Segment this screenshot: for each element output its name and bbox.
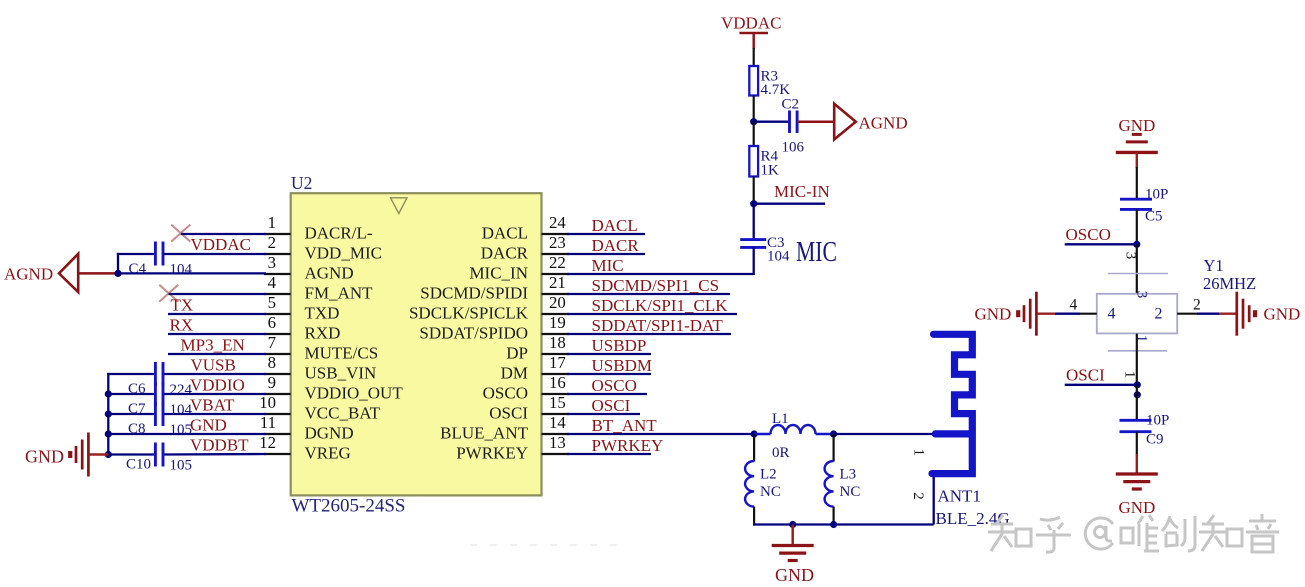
pin 13 name PWRKEY bbox=[456, 444, 528, 463]
node bus/VBAT bbox=[105, 410, 112, 417]
value 10P (C9) bbox=[1146, 413, 1169, 429]
wire C3 down to pin22 net bbox=[753, 248, 755, 276]
pin 18 number bbox=[549, 333, 566, 352]
node OSCI b bbox=[1134, 391, 1141, 398]
net label OSCO bbox=[592, 376, 637, 395]
wire junction to R4 bbox=[753, 122, 755, 147]
wire junction to C3 bbox=[753, 204, 755, 240]
inductor L2 bbox=[745, 461, 754, 507]
wire C5 to OSCO junction bbox=[1136, 209, 1138, 245]
capacitor C2 bbox=[790, 110, 798, 133]
value 104 (C3) bbox=[767, 249, 790, 265]
pin 15 OSCI stub bbox=[542, 413, 570, 415]
svg-text:23: 23 bbox=[549, 233, 566, 252]
wire GND tap down bbox=[791, 525, 794, 546]
part value WT2605-24SS bbox=[292, 496, 406, 517]
svg-text:VCC_BAT: VCC_BAT bbox=[305, 404, 381, 423]
pin 11 name DGND bbox=[305, 424, 354, 443]
pin 20 number bbox=[549, 293, 566, 312]
value 0R bbox=[772, 445, 790, 461]
pin 9 number bbox=[268, 373, 276, 392]
pin 2 number bbox=[268, 233, 276, 252]
pin 19 name SDDAT/SPIDO bbox=[419, 324, 528, 343]
designator U2 bbox=[291, 173, 312, 193]
node OSCI a bbox=[1134, 381, 1141, 388]
label C8 bbox=[128, 421, 146, 437]
label L2 bbox=[760, 467, 777, 483]
wire R4 to MIC-IN junction bbox=[753, 177, 755, 205]
node L1 right / L3 bbox=[830, 430, 837, 437]
net label SDCMD/SPI1_CS bbox=[592, 276, 720, 295]
svg-text:PWRKEY: PWRKEY bbox=[456, 444, 528, 463]
net label OSCO bbox=[1066, 225, 1111, 244]
label C6 bbox=[128, 381, 146, 397]
svg-text:SDDAT/SPI1-DAT: SDDAT/SPI1-DAT bbox=[592, 316, 724, 335]
net label DACL bbox=[592, 216, 638, 235]
wire net DACL bbox=[567, 233, 645, 235]
capacitor C3 bbox=[740, 240, 766, 248]
svg-text:7: 7 bbox=[268, 333, 276, 352]
ground GND (left sideways) bbox=[25, 433, 88, 477]
svg-text:MIC: MIC bbox=[796, 236, 837, 268]
pin 4 number bbox=[268, 273, 277, 292]
svg-text:GND: GND bbox=[1264, 305, 1301, 324]
pin 10 name VCC_BAT bbox=[305, 404, 381, 423]
pin 1 label (antenna) bbox=[911, 449, 927, 457]
node bus/VDDIO bbox=[105, 390, 112, 397]
capacitor C6 bbox=[155, 362, 163, 386]
ground GND (crystal right, sideways) bbox=[1237, 292, 1301, 336]
pin 14 name BLUE_ANT bbox=[440, 424, 528, 443]
svg-text:Y1: Y1 bbox=[1204, 256, 1224, 275]
capacitor C5 bbox=[1120, 199, 1152, 209]
svg-text:10: 10 bbox=[259, 393, 276, 412]
node L3 bottom bbox=[830, 521, 837, 528]
pin 3 name AGND bbox=[305, 264, 354, 283]
svg-text:OSCO: OSCO bbox=[1066, 225, 1111, 244]
pin 23 DACR stub bbox=[542, 253, 570, 255]
pin 2 VDD_MIC stub bbox=[264, 253, 291, 255]
svg-text:11: 11 bbox=[260, 413, 276, 432]
wire antenna pin2 bbox=[933, 474, 935, 525]
wire L3 bottom bbox=[832, 507, 834, 526]
pin 7 number bbox=[268, 333, 276, 352]
watermark 知乎 @唯创知音 bbox=[988, 514, 1279, 552]
svg-text:MP3_EN: MP3_EN bbox=[181, 336, 245, 355]
svg-text:WT2605-24SS: WT2605-24SS bbox=[292, 496, 406, 517]
svg-text:DM: DM bbox=[501, 364, 528, 383]
wire L2 bottom bbox=[753, 507, 755, 526]
label R4 bbox=[761, 149, 779, 165]
wire pin1 bbox=[181, 233, 266, 235]
svg-text:10P: 10P bbox=[1145, 187, 1168, 203]
wire C9 to GND bbox=[1136, 432, 1138, 474]
capacitor C9 bbox=[1120, 420, 1152, 431]
pin 6 number bbox=[268, 313, 276, 332]
pin 24 name DACL bbox=[482, 224, 528, 243]
svg-text:U2: U2 bbox=[291, 173, 312, 193]
net label PWRKEY bbox=[592, 436, 664, 455]
svg-text:3: 3 bbox=[268, 253, 276, 272]
wire RX bbox=[168, 333, 266, 335]
pin 6 RXD stub bbox=[264, 333, 291, 335]
svg-text:BT_ANT: BT_ANT bbox=[592, 416, 658, 435]
svg-text:ANT1: ANT1 bbox=[938, 487, 981, 506]
power port VDDAC bbox=[721, 13, 781, 49]
svg-text:C9: C9 bbox=[1146, 432, 1164, 448]
svg-text:1: 1 bbox=[268, 213, 276, 232]
value 224 (C6) bbox=[170, 382, 193, 398]
svg-text:GND: GND bbox=[775, 565, 814, 585]
capacitor C7 bbox=[155, 382, 163, 406]
svg-text:L1: L1 bbox=[772, 411, 789, 427]
svg-text:SDCMD/SPI1_CS: SDCMD/SPI1_CS bbox=[592, 276, 720, 295]
svg-text:TXD: TXD bbox=[305, 304, 340, 323]
value 105 (C10) bbox=[170, 458, 193, 474]
wire GND to C5 bbox=[1136, 152, 1138, 200]
svg-text:OSCI: OSCI bbox=[592, 396, 631, 415]
wire OSCI bbox=[1065, 384, 1137, 386]
pin 17 name DM bbox=[501, 364, 528, 383]
label C9 bbox=[1146, 432, 1164, 448]
wire net SDDAT/SPI1-DAT bbox=[567, 333, 731, 335]
pin 4 FM_ANT stub bbox=[264, 293, 291, 295]
pin 1 name (crystal) bbox=[1134, 335, 1150, 343]
svg-text:VDDBT: VDDBT bbox=[190, 436, 249, 455]
svg-text:OSCI: OSCI bbox=[489, 404, 528, 423]
wire GND row pin11 bbox=[108, 433, 266, 435]
svg-text:DP: DP bbox=[506, 344, 528, 363]
label C3 bbox=[767, 235, 785, 251]
value 105 (C8) bbox=[170, 422, 193, 438]
net label SDCLK/SPI1_CLK bbox=[592, 296, 729, 315]
svg-text:RXD: RXD bbox=[305, 324, 341, 343]
net label VUSB bbox=[191, 356, 236, 375]
resistor R4 bbox=[749, 146, 758, 177]
pin 15 name OSCI bbox=[489, 404, 528, 423]
wire MIC-IN bbox=[754, 203, 825, 205]
pin 13 PWRKEY stub bbox=[542, 453, 570, 455]
pin 18 DP stub bbox=[542, 353, 570, 355]
wire crystal to OSCI bbox=[1136, 334, 1138, 386]
pin 1 number bbox=[268, 213, 276, 232]
svg-text:SDCLK/SPI1_CLK: SDCLK/SPI1_CLK bbox=[592, 296, 729, 315]
svg-text:17: 17 bbox=[549, 353, 566, 372]
inductor L1 bbox=[754, 425, 834, 434]
svg-text:1: 1 bbox=[911, 449, 927, 457]
svg-text:DACR/L-: DACR/L- bbox=[305, 224, 373, 243]
pin 13 number bbox=[549, 433, 566, 452]
node MIC-IN bbox=[750, 200, 757, 207]
net label VDDAC (pin2) bbox=[191, 235, 251, 254]
svg-text:SDDAT/SPIDO: SDDAT/SPIDO bbox=[419, 324, 528, 343]
svg-text:4: 4 bbox=[1070, 297, 1078, 314]
pin 2 name VDD_MIC bbox=[305, 244, 382, 263]
pin 24 DACL stub bbox=[542, 233, 570, 235]
wire bus vertical bbox=[107, 373, 109, 455]
net label BT_ANT bbox=[592, 416, 658, 435]
inductor L3 bbox=[825, 461, 834, 507]
pin 12 name VREG bbox=[305, 444, 351, 463]
value 106 bbox=[782, 140, 805, 156]
svg-text:22: 22 bbox=[549, 253, 566, 272]
wire net OSCO bbox=[567, 393, 647, 395]
svg-text:2: 2 bbox=[1155, 306, 1163, 323]
pin 3 number bbox=[268, 253, 276, 272]
wire MP3_EN bbox=[168, 353, 266, 355]
pin 8 USB_VIN stub bbox=[264, 373, 291, 375]
pin 21 number bbox=[549, 273, 566, 292]
net label SDDAT/SPI1-DAT bbox=[592, 316, 724, 335]
svg-text:AGND: AGND bbox=[4, 265, 53, 284]
svg-text:VUSB: VUSB bbox=[191, 356, 236, 375]
wire L3 top stub bbox=[832, 434, 834, 462]
wire net OSCI bbox=[567, 413, 640, 415]
wire VDDIO row bbox=[108, 393, 266, 395]
pin 23 name DACR bbox=[481, 244, 529, 263]
pin 19 number bbox=[549, 313, 566, 332]
wire net DACR bbox=[567, 253, 645, 255]
node bus/GND bbox=[105, 430, 112, 437]
value 104 (C4) bbox=[170, 262, 193, 278]
pin 2 name (crystal) bbox=[1155, 306, 1163, 323]
capacitor C4 bbox=[155, 242, 163, 266]
pin 5 number bbox=[268, 293, 276, 312]
svg-text:VREG: VREG bbox=[305, 444, 351, 463]
svg-text:VDDIO: VDDIO bbox=[190, 376, 245, 395]
pin 17 number bbox=[549, 353, 566, 372]
pin 14 BLUE_ANT stub bbox=[542, 433, 570, 435]
svg-text:C10: C10 bbox=[126, 457, 151, 473]
no-connect X pin 4 bbox=[159, 285, 178, 302]
net label MIC-IN bbox=[774, 182, 830, 201]
svg-text:PWRKEY: PWRKEY bbox=[592, 436, 664, 455]
wire net PWRKEY bbox=[567, 453, 651, 455]
wire AGND to junction bbox=[78, 272, 118, 275]
antenna ANT1 meander bbox=[932, 334, 972, 473]
pin 21 name SDCMD/SPIDI bbox=[420, 284, 528, 303]
value 26MHZ bbox=[1203, 274, 1256, 293]
node GND tap bbox=[789, 521, 796, 528]
pin 12 number bbox=[259, 433, 276, 452]
pin 5 TXD stub bbox=[264, 313, 291, 315]
svg-text:2: 2 bbox=[268, 233, 276, 252]
svg-text:1: 1 bbox=[1122, 371, 1138, 379]
svg-text:SDCMD/SPIDI: SDCMD/SPIDI bbox=[420, 284, 528, 303]
svg-text:DACR: DACR bbox=[481, 244, 529, 263]
wire net USBDM bbox=[567, 373, 651, 375]
svg-text:104: 104 bbox=[767, 249, 790, 265]
label C7 bbox=[128, 401, 146, 417]
wire L2 top stub bbox=[753, 434, 755, 462]
ground GND (bottom right) bbox=[1116, 474, 1158, 517]
label C5 bbox=[1145, 209, 1163, 225]
svg-text:SDCLK/SPICLK: SDCLK/SPICLK bbox=[409, 304, 529, 323]
svg-text:MIC: MIC bbox=[592, 256, 624, 275]
svg-text:GND: GND bbox=[1119, 498, 1156, 517]
svg-text:24: 24 bbox=[549, 213, 566, 232]
net label DACR bbox=[592, 236, 640, 255]
wire OSCI to C9 bbox=[1136, 385, 1138, 421]
svg-text:9: 9 bbox=[268, 373, 276, 392]
pin 14 number bbox=[549, 413, 566, 432]
svg-text:14: 14 bbox=[549, 413, 566, 432]
pin 4 number bbox=[1070, 297, 1078, 314]
designator Y1 bbox=[1204, 256, 1224, 275]
capacitor C8 bbox=[155, 402, 163, 426]
wire net SDCMD/SPI1_CS bbox=[567, 293, 730, 295]
svg-text:19: 19 bbox=[549, 313, 566, 332]
ground GND (crystal left, sideways) bbox=[975, 292, 1037, 336]
pin 1 name DACR/L- bbox=[305, 224, 373, 243]
svg-text:BLUE_ANT: BLUE_ANT bbox=[440, 424, 528, 443]
svg-text:5: 5 bbox=[268, 293, 276, 312]
svg-text:105: 105 bbox=[170, 458, 193, 474]
watermark remnant dashes bbox=[470, 544, 617, 546]
pin 3 name (crystal) bbox=[1134, 291, 1150, 299]
pin 2 label (antenna) bbox=[910, 492, 926, 500]
svg-text:C4: C4 bbox=[129, 261, 147, 277]
label L1 bbox=[772, 411, 789, 427]
label L3 bbox=[840, 467, 857, 483]
pin 6 name RXD bbox=[305, 324, 341, 343]
net label GND (pin11) bbox=[190, 416, 227, 435]
svg-text:12: 12 bbox=[259, 433, 276, 452]
svg-text:4: 4 bbox=[268, 273, 277, 292]
svg-text:L3: L3 bbox=[840, 467, 857, 483]
capacitor C10 bbox=[155, 443, 163, 467]
pin 12 VREG stub bbox=[264, 453, 291, 455]
wire net BT_ANT bbox=[567, 433, 754, 435]
power port AGND (left) bbox=[4, 254, 78, 292]
svg-text:10P: 10P bbox=[1146, 413, 1169, 429]
pin 4 name (crystal) bbox=[1108, 306, 1116, 323]
wire pin4 bbox=[169, 293, 267, 295]
svg-text:USBDM: USBDM bbox=[592, 356, 652, 375]
pin 7 MUTE/CS stub bbox=[264, 353, 291, 355]
svg-text:TX: TX bbox=[171, 296, 194, 315]
svg-text:15: 15 bbox=[549, 393, 566, 412]
svg-text:104: 104 bbox=[170, 262, 193, 278]
wire OSCO to crystal bbox=[1136, 244, 1138, 294]
wire C2 to AGND bbox=[797, 120, 834, 123]
svg-text:VBAT: VBAT bbox=[190, 396, 235, 415]
ground GND (bottom middle) bbox=[772, 546, 814, 586]
svg-text:VDDAC: VDDAC bbox=[721, 13, 781, 32]
pin 24 number bbox=[549, 213, 566, 232]
wire crystal pin4 bbox=[1038, 313, 1097, 315]
power port AGND (right) bbox=[834, 104, 907, 140]
svg-text:GND: GND bbox=[1119, 116, 1156, 135]
svg-text:16: 16 bbox=[549, 373, 566, 392]
svg-text:8: 8 bbox=[268, 353, 276, 372]
value 1K bbox=[761, 163, 780, 179]
svg-text:26MHZ: 26MHZ bbox=[1203, 274, 1256, 293]
svg-text:MUTE/CS: MUTE/CS bbox=[305, 344, 379, 363]
label C4 bbox=[129, 261, 147, 277]
svg-text:DACR: DACR bbox=[592, 236, 640, 255]
pin 22 MIC_IN stub bbox=[542, 273, 570, 275]
wire junction to C2 bbox=[754, 121, 790, 123]
value NC (L2) bbox=[760, 484, 781, 500]
svg-text:2: 2 bbox=[1193, 297, 1201, 314]
pin 10 number bbox=[259, 393, 276, 412]
svg-text:GND: GND bbox=[975, 305, 1012, 324]
value 10P (C5) bbox=[1145, 187, 1168, 203]
node AGND junction bbox=[114, 270, 121, 277]
svg-text:21: 21 bbox=[549, 273, 566, 292]
resistor R3 bbox=[749, 66, 758, 96]
svg-text:MIC-IN: MIC-IN bbox=[774, 182, 830, 201]
wire pin3 AGND net bbox=[118, 272, 266, 274]
svg-text:18: 18 bbox=[549, 333, 566, 352]
wire L1 right to antenna bbox=[834, 433, 938, 435]
svg-text:FM_ANT: FM_ANT bbox=[305, 284, 374, 303]
svg-text:2: 2 bbox=[910, 492, 926, 500]
svg-text:OSCO: OSCO bbox=[592, 376, 637, 395]
label R3 bbox=[761, 69, 779, 85]
value BLE_2.4G bbox=[936, 509, 1010, 528]
net label MIC bbox=[592, 256, 624, 275]
svg-text:106: 106 bbox=[782, 140, 805, 156]
pin 8 name USB_VIN bbox=[305, 364, 377, 383]
node R3/R4/C2 bbox=[750, 118, 757, 125]
net label MP3_EN bbox=[181, 336, 245, 355]
net label USBDM bbox=[592, 356, 652, 375]
label C10 bbox=[126, 457, 151, 473]
pin 21 SDCMD/SPIDI stub bbox=[542, 293, 570, 295]
svg-text:VDDAC: VDDAC bbox=[191, 235, 251, 254]
pin 23 number bbox=[549, 233, 566, 252]
wire GND symbol to bus bbox=[90, 453, 109, 456]
wire net SDCLK/SPI1_CLK bbox=[567, 313, 737, 315]
svg-text:OSCO: OSCO bbox=[483, 384, 528, 403]
wire C4 to pin2 bbox=[163, 253, 266, 255]
svg-text:C5: C5 bbox=[1145, 209, 1163, 225]
pin 20 name SDCLK/SPICLK bbox=[409, 304, 529, 323]
svg-text:AGND: AGND bbox=[305, 264, 354, 283]
wire ground net bottom bbox=[753, 523, 934, 525]
pin 16 OSCO stub bbox=[542, 393, 570, 395]
net label OSCI bbox=[1066, 366, 1105, 385]
svg-text:L2: L2 bbox=[760, 467, 777, 483]
svg-text:6: 6 bbox=[268, 313, 276, 332]
svg-text:VDDIO_OUT: VDDIO_OUT bbox=[305, 384, 404, 403]
svg-text:4: 4 bbox=[1108, 306, 1116, 323]
svg-text:0R: 0R bbox=[772, 445, 790, 461]
pin 19 SDDAT/SPIDO stub bbox=[542, 333, 570, 335]
pin 11 DGND stub bbox=[264, 433, 291, 435]
wire junction up to C4 row bbox=[117, 253, 156, 274]
pin 18 name DP bbox=[506, 344, 528, 363]
svg-text:OSCI: OSCI bbox=[1066, 366, 1105, 385]
label C2 bbox=[782, 97, 800, 113]
svg-text:NC: NC bbox=[840, 484, 861, 500]
svg-text:AGND: AGND bbox=[859, 114, 908, 133]
net label VDDBT bbox=[190, 436, 249, 455]
svg-text:DACL: DACL bbox=[592, 216, 638, 235]
value NC (L3) bbox=[840, 484, 861, 500]
crystal bottom pale pin line bbox=[1108, 350, 1167, 352]
wire crystal pin2 bbox=[1177, 313, 1237, 315]
pin 9 name VDDIO_OUT bbox=[305, 384, 404, 403]
crystal top pale pin line bbox=[1108, 273, 1168, 275]
svg-text:3: 3 bbox=[1134, 291, 1150, 299]
pin 5 name TXD bbox=[305, 304, 340, 323]
svg-text:USBDP: USBDP bbox=[592, 336, 647, 355]
pin 2 number bbox=[1193, 297, 1201, 314]
pin 10 VCC_BAT stub bbox=[264, 413, 291, 415]
